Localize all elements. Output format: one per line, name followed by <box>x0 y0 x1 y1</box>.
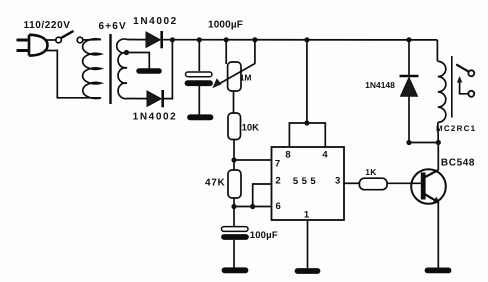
node bracket <box>304 120 309 125</box>
relay actuation arrow <box>460 81 469 94</box>
resistor R3 1K <box>359 178 387 190</box>
node B (R2/C2 junction) <box>231 204 236 209</box>
wire D3 to bottom node <box>408 96 410 142</box>
svg-text:7: 7 <box>275 159 280 170</box>
wire rail end down to relay coil <box>436 40 438 62</box>
wire rail to D3 <box>408 40 410 75</box>
node A (R1/R2 junction, pin 7) <box>231 157 236 162</box>
potentiometer wiper arm <box>218 40 255 85</box>
svg-text:3: 3 <box>335 176 340 187</box>
wire R2 to node B <box>233 198 235 226</box>
label 1000uF <box>208 19 243 30</box>
node on rail (pot top) <box>224 37 229 42</box>
node on rail (relay branch) <box>406 37 411 42</box>
wire plug to switch <box>45 39 56 41</box>
svg-text:1: 1 <box>304 210 310 221</box>
wire collector riser <box>437 143 439 171</box>
ground (555) <box>298 268 318 274</box>
node on rail (555 supply) <box>304 37 309 42</box>
label MC2RC1 <box>436 124 476 133</box>
switch S1 <box>56 31 83 43</box>
label 1K <box>365 167 377 177</box>
wiper arrowhead <box>212 78 221 88</box>
wire C2 to ground <box>233 240 235 268</box>
relay coil L1 <box>438 61 446 122</box>
wire D2 output riser to top rail <box>163 40 173 99</box>
label 100uF <box>250 230 278 241</box>
svg-text:10K: 10K <box>242 123 260 134</box>
svg-text:6+6V: 6+6V <box>98 21 126 32</box>
node on rail (pot wiper) <box>252 37 257 42</box>
ground (C1) <box>190 114 211 120</box>
node on rail (C1) <box>197 37 202 42</box>
wire R3 to base <box>387 182 421 184</box>
svg-text:1N4002: 1N4002 <box>133 111 178 122</box>
wire rail to C1 <box>198 40 200 71</box>
transformer T1 primary <box>83 39 101 99</box>
top rail <box>127 39 437 41</box>
svg-text:110/220V: 110/220V <box>23 20 70 31</box>
IC U1 555 <box>272 147 345 220</box>
wire pot to R1 <box>233 91 235 113</box>
wire emitter to ground <box>437 202 439 267</box>
svg-text:MC2RC1: MC2RC1 <box>436 124 476 133</box>
label 1N4002 bottom <box>133 111 178 122</box>
transistor Q1 BC548 <box>411 169 446 204</box>
transformer T1 secondary <box>117 39 127 99</box>
wire pin 1 to ground <box>307 220 309 268</box>
wire secondary bottom to D2 <box>127 98 147 100</box>
wire pin2 tie riser <box>253 184 272 207</box>
svg-text:8: 8 <box>285 150 290 161</box>
svg-text:1N4148: 1N4148 <box>365 80 395 90</box>
svg-text:100µF: 100µF <box>250 230 278 241</box>
potentiometer P1 1M body <box>228 62 241 91</box>
diode D1 1N4002 (top) <box>146 31 162 48</box>
relay contact bottom <box>468 91 474 97</box>
ground (emitter) <box>428 267 449 273</box>
wire rail to potentiometer <box>225 40 227 64</box>
node D3 bottom <box>406 140 411 145</box>
wire node B to pin 6 <box>234 206 272 208</box>
diode D2 1N4002 (bottom) <box>147 90 163 107</box>
relay frame line <box>451 56 453 118</box>
capacitor C1 1000uF <box>186 72 213 83</box>
relay contact top <box>468 70 474 76</box>
label 47K <box>205 178 226 189</box>
wire R1 to node A <box>233 140 235 171</box>
capacitor C2 100uF <box>222 227 249 237</box>
ground (C2) <box>225 267 246 273</box>
resistor R1 10K <box>228 113 241 140</box>
svg-text:1000µF: 1000µF <box>208 19 243 30</box>
resistor R2 47K <box>228 170 241 198</box>
node collector junction <box>436 140 441 145</box>
wire pin 3 to R3 <box>344 182 359 184</box>
svg-text:BC548: BC548 <box>441 158 475 169</box>
AC plug <box>17 35 48 56</box>
wire center tap to ground <box>127 53 150 69</box>
label 1N4148 <box>365 80 395 90</box>
wire plug bottom <box>44 51 86 98</box>
node B2 (pin2/pin6 tie) <box>250 204 255 209</box>
wire bottom node to collector <box>409 142 438 144</box>
svg-text:1M: 1M <box>240 73 252 83</box>
wire pins 8+4 bracket <box>289 123 325 147</box>
label 1M <box>240 73 252 83</box>
wire coil bottom <box>437 122 440 142</box>
svg-text:1N4002: 1N4002 <box>133 16 178 27</box>
label BC548 <box>441 158 475 169</box>
label 1N4002 top <box>133 16 178 27</box>
relay lever <box>456 64 468 71</box>
svg-text:4: 4 <box>322 150 328 161</box>
label 6+6V <box>98 21 126 32</box>
ground (center tap) <box>139 68 159 74</box>
wire bracket to rail <box>306 40 308 123</box>
wire C1 to ground <box>198 86 200 115</box>
svg-text:47K: 47K <box>205 178 226 189</box>
svg-text:6: 6 <box>276 201 281 212</box>
label 10K <box>242 123 260 134</box>
svg-text:1K: 1K <box>365 167 377 177</box>
svg-text:555: 555 <box>293 176 319 187</box>
wire switch to transformer <box>83 39 101 42</box>
diode D3 1N4148 <box>400 76 419 96</box>
wire node A to pin 7 <box>234 159 272 161</box>
node: secondary center tap <box>124 50 129 55</box>
transformer core <box>109 34 111 104</box>
node on rail (D2 riser) <box>170 37 175 42</box>
svg-text:2: 2 <box>275 175 280 186</box>
label 110/220V <box>23 20 70 31</box>
